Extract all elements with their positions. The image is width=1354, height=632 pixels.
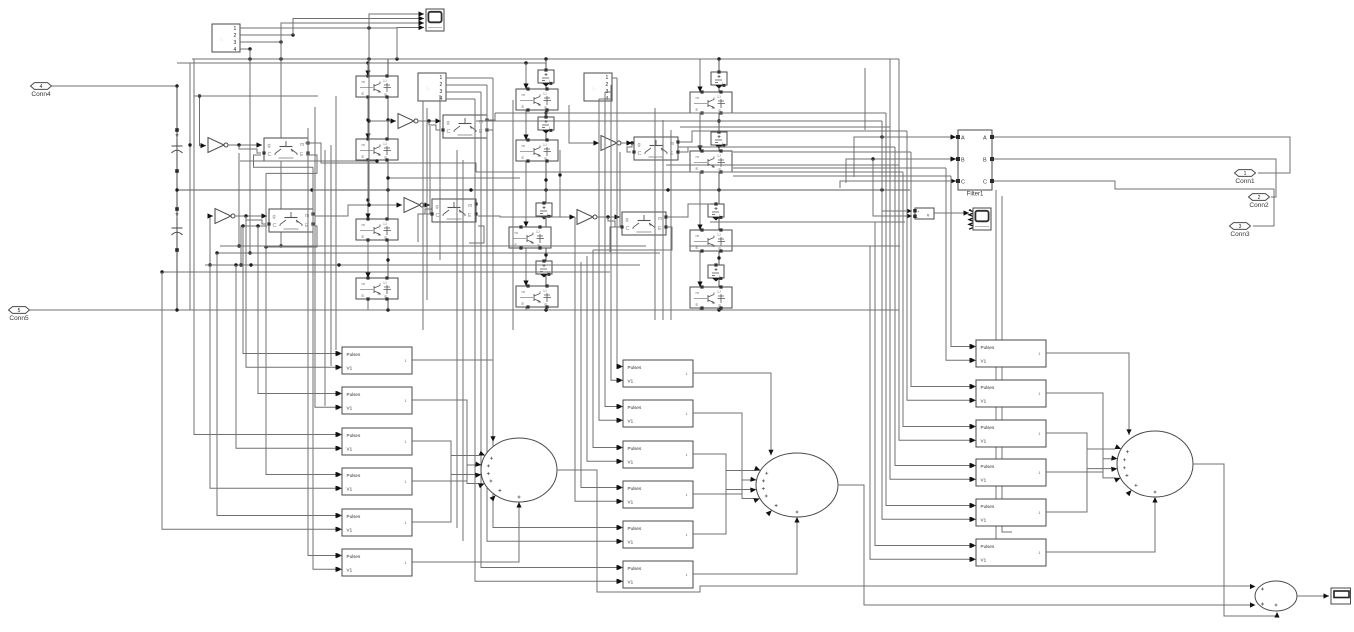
wire sum1 fan in4 [412, 465, 476, 481]
H-IGBT B1 [441, 115, 488, 138]
wire P2-3 in Pulses [593, 250, 622, 450]
svg-text:1: 1 [686, 573, 688, 577]
wire texture vertical x=427 [426, 108, 428, 300]
wire P3-1 in V1 [946, 168, 975, 363]
svg-text:V1: V1 [347, 567, 353, 572]
wire mid horizontal 12 [690, 245, 900, 247]
pulse generator P1-5 [337, 509, 413, 536]
H-IGBT A2 [267, 209, 314, 232]
wire mid horizontal 15 [205, 264, 640, 266]
port marker squares on DC leg [175, 128, 179, 132]
wire P1-2 in V1 [315, 107, 341, 410]
port Conn1 [1235, 170, 1256, 185]
wire texture vertical x=463 [462, 160, 464, 541]
svg-text:m: m [658, 216, 662, 222]
wire H-IGBT B1 m route [487, 113, 495, 120]
wire texture vertical x=671 [670, 130, 672, 320]
sum block Sum1 [475, 438, 557, 508]
wire H-IGBT B2 C feed [418, 214, 430, 242]
svg-text:E: E [696, 107, 699, 112]
wire top bus y=63 [177, 61, 546, 64]
svg-text:V1: V1 [347, 405, 353, 410]
wire H-IGBT B1 E route [489, 130, 493, 150]
svg-text:Pulses: Pulses [347, 433, 361, 438]
wire NOT A1 to IGBT g [228, 142, 262, 147]
pulse generator P3-4 [971, 459, 1047, 486]
wire vmeas to scope2 [934, 210, 969, 215]
pulse generator P1-3 [337, 428, 413, 455]
svg-text:1J: 1J [543, 92, 547, 96]
sum block Sum4 small [1250, 581, 1297, 618]
svg-text:Pulses: Pulses [347, 554, 361, 559]
wire texture vertical x=513 [512, 100, 514, 330]
svg-text:m: m [468, 203, 472, 209]
wire P2-6 in Pulses [481, 92, 622, 570]
wire P2-5 in Pulses [493, 78, 622, 530]
wire vmeas in- [873, 159, 912, 219]
svg-text:V1: V1 [981, 517, 987, 522]
wire NOT A2 to IGBT g [235, 213, 267, 218]
IGBT module leg1-4 [356, 276, 398, 300]
wire P3-5 in V1 [882, 121, 975, 522]
wire output bus y=310 from Conn5 [30, 308, 899, 311]
svg-text:Pulses: Pulses [628, 405, 642, 410]
wire texture vertical x=423 [422, 101, 424, 330]
svg-text:g: g [436, 204, 439, 210]
wire texture vertical x=620 [619, 152, 621, 227]
battery module leg2-1 [538, 68, 554, 86]
wire H-IGBT A2 C feed [239, 226, 267, 267]
wire sum2 fan in5 [693, 471, 755, 535]
svg-text:2: 2 [440, 82, 443, 88]
wire P1-2 in Pulses [258, 226, 341, 396]
wire leg2 bottom arrow [543, 303, 548, 309]
svg-text:C: C [983, 180, 987, 186]
NOT gate B1 [398, 114, 418, 129]
wire leg1 left bottom stub [367, 299, 369, 310]
wire H-IGBT B2 m chain [478, 216, 560, 217]
IGBT module leg1-1 [356, 74, 398, 98]
wire P1-6 in Pulses [308, 128, 341, 558]
pulse generator P1-6 [337, 549, 413, 576]
svg-text:E: E [362, 293, 365, 298]
wire P2-4 in V1 [575, 217, 622, 504]
svg-text:4: 4 [40, 84, 43, 90]
svg-text:Pulses: Pulses [347, 473, 361, 478]
svg-text:Conn1: Conn1 [1235, 178, 1255, 185]
svg-text:V1: V1 [981, 477, 987, 482]
svg-text:2: 2 [1258, 195, 1261, 201]
svg-text:C: C [626, 226, 630, 232]
svg-text:B: B [961, 158, 965, 164]
wire leg1 left seg4 [365, 240, 370, 278]
svg-text:A: A [983, 136, 987, 142]
wire leg1 right line [386, 59, 389, 310]
svg-text:1: 1 [1244, 171, 1247, 177]
wire mid DC bus y=190 [175, 188, 910, 191]
wire P3-2 in Pulses [911, 152, 975, 389]
wire NOT C1 to IGBT g [621, 140, 634, 145]
wire sum3 fan in4 [1046, 459, 1112, 472]
wire leg3 left seg4 [697, 251, 702, 287]
wire NOT C1 input [569, 105, 599, 146]
wire leg3 left bottom stub [699, 307, 701, 310]
battery module leg2-4 [536, 259, 552, 277]
wire leg2 left seg4 [523, 247, 528, 286]
wire NOT C2 to IGBT g [597, 214, 620, 219]
wire texture vertical x=239 [237, 153, 240, 248]
wire H-IGBT A1 C loop [254, 155, 314, 167]
svg-text:1: 1 [405, 440, 407, 444]
wire P1-4 in V1 [210, 265, 341, 491]
svg-text:1: 1 [405, 399, 407, 403]
svg-text:1J: 1J [717, 290, 721, 294]
wire cap tap arrows [176, 134, 179, 139]
wire mid horizontal 16 [162, 271, 610, 273]
wire texture vertical x=655 [654, 108, 656, 320]
wire leg2 right line [544, 59, 547, 310]
svg-text:C: C [273, 223, 277, 229]
pulse generator P2-5 [618, 521, 694, 548]
wire P1-1 in V1 [246, 216, 341, 370]
wire sum3 fan in1 [1046, 353, 1132, 435]
wire sum2 out long run [838, 485, 1250, 605]
wire leg2 left seg2 [523, 109, 528, 140]
wire D2 out1 [446, 77, 493, 79]
battery module leg2-3 [536, 201, 552, 219]
wire NOT A2 branch to C [246, 216, 266, 224]
wire NOT C1 branch to C [627, 143, 632, 152]
svg-text:V1: V1 [347, 365, 353, 370]
wire texture vertical x=1002 [1002, 196, 1012, 532]
wire sum2 bottom feed [693, 522, 797, 574]
display block Display1 [1331, 588, 1351, 604]
svg-text:s: s [426, 86, 429, 92]
svg-text:C: C [961, 180, 965, 186]
wire mid horizontal 1 [495, 112, 886, 114]
svg-text:Conn4: Conn4 [31, 91, 51, 98]
junction at 162,272 [160, 270, 163, 273]
wire D1 out3 drop [279, 42, 282, 248]
wire H-IGBT A2 E route [264, 226, 317, 249]
svg-text:1J: 1J [383, 142, 387, 146]
svg-text:g: g [638, 142, 641, 148]
svg-text:C: C [638, 151, 642, 157]
svg-text:1: 1 [686, 412, 688, 416]
svg-text:Conn5: Conn5 [9, 315, 29, 322]
svg-text:1: 1 [686, 493, 688, 497]
pulse generator P2-4 [618, 481, 694, 508]
wire P3-5 in Pulses [886, 113, 975, 508]
pulse generator P1-2 [337, 387, 413, 414]
svg-text:E: E [522, 104, 525, 109]
svg-text:1: 1 [1039, 551, 1041, 555]
NOT gate A2 [215, 209, 235, 224]
wire sum4 to display [1297, 593, 1329, 598]
wire NOT A1 input [198, 94, 206, 148]
svg-text:V1: V1 [628, 378, 634, 383]
port Conn3 [1230, 223, 1251, 238]
svg-text:Pulses: Pulses [628, 486, 642, 491]
wire P2-3 in V1 [587, 256, 622, 464]
svg-text:m: m [300, 142, 304, 148]
svg-text:Pulses: Pulses [628, 365, 642, 370]
svg-text:E: E [362, 91, 365, 96]
wire NOT B1 branch to C [429, 121, 440, 130]
svg-text:Filter1: Filter1 [967, 192, 984, 198]
wire P3-6 in V1 [870, 246, 975, 562]
wire mid horizontal 2 [476, 120, 882, 122]
svg-text:Pulses: Pulses [628, 446, 642, 451]
svg-text:V1: V1 [981, 398, 987, 403]
wire leg2 left bottom stub [525, 306, 527, 310]
wire D1 out4 drop [248, 49, 251, 255]
svg-text:g: g [268, 143, 271, 149]
svg-text:1J: 1J [717, 233, 721, 237]
wire leg1 left seg3 [365, 160, 370, 219]
svg-text:4: 4 [234, 47, 237, 53]
wire leg3 left line seg1 [697, 59, 702, 92]
wire D3 out3 [605, 91, 612, 93]
svg-text:5: 5 [18, 308, 21, 314]
wire P3-1 in Pulses [951, 176, 975, 349]
IGBT module leg1-3 [356, 217, 398, 241]
wire mid horizontal 14 [217, 252, 660, 254]
svg-text:Pulses: Pulses [981, 345, 995, 350]
svg-text:C: C [268, 152, 272, 158]
svg-text:Pulses: Pulses [347, 352, 361, 357]
scope Scope2 [973, 208, 991, 230]
wire NOT B2 branch to C [425, 205, 435, 214]
wire H-IGBT A1 E route [266, 155, 317, 173]
svg-text:1: 1 [686, 372, 688, 376]
wire D2 out3 [446, 91, 481, 93]
H-IGBT C2 [620, 212, 667, 235]
svg-text:1: 1 [1039, 511, 1041, 515]
filter block Filter1 [956, 130, 994, 198]
pulse generator P2-3 [618, 441, 694, 468]
pulse generator P3-1 [971, 340, 1047, 367]
pulse generator P3-5 [971, 499, 1047, 526]
svg-text:1: 1 [686, 533, 688, 537]
wire NOT C2 input [558, 150, 575, 220]
svg-text:C: C [447, 129, 451, 135]
port Conn4 [31, 83, 52, 98]
svg-text:1J: 1J [543, 143, 547, 147]
wire P2-1 in Pulses [617, 78, 623, 369]
svg-text:E: E [696, 166, 699, 171]
wire P1-1 in Pulses [243, 226, 341, 356]
wire texture vertical x=663 [662, 120, 664, 320]
scope Scope1 [426, 9, 444, 31]
wire mid horizontal 11 [710, 221, 905, 223]
wire top bus y=59 [192, 57, 899, 60]
wire P1-3 in Pulses [194, 272, 341, 437]
svg-text:V1: V1 [628, 539, 634, 544]
wire mid horizontal 7 [733, 130, 907, 132]
NOT gate B2 [404, 198, 424, 213]
svg-text:Pulses: Pulses [981, 385, 995, 390]
wire texture vertical x=325 [324, 150, 326, 406]
IGBT module leg3-2 [690, 149, 732, 173]
wire NOT B1 to IGBT g [418, 118, 441, 123]
wire NOT B1 input stub [369, 118, 396, 123]
IGBT module leg3-4 [690, 285, 732, 309]
wire leg1 left seg2 [365, 97, 370, 139]
port Conn2 [1249, 194, 1270, 209]
svg-text:Conn2: Conn2 [1249, 202, 1269, 209]
capacitor C1 [172, 146, 183, 153]
wire sum2 fan in2 [693, 413, 754, 499]
svg-text:3: 3 [440, 89, 443, 95]
wire sum2 fan in3 [693, 454, 750, 490]
wire P2-6 in V1 [475, 99, 622, 584]
svg-text:1: 1 [405, 359, 407, 363]
H-IGBT C1 [632, 137, 679, 160]
wire sum1 bottom feed [412, 507, 519, 562]
H-IGBT A1 [262, 138, 309, 161]
capacitor C2 [172, 228, 183, 235]
svg-text:g: g [626, 217, 629, 223]
svg-text:Pulses: Pulses [981, 544, 995, 549]
wire sum3 bottom feed [1046, 502, 1155, 552]
svg-text:V1: V1 [628, 499, 634, 504]
voltage measurement VM1 [913, 208, 934, 219]
wire D1 out1 [240, 26, 397, 29]
pulse generator P3-6 [971, 539, 1047, 566]
svg-text:1: 1 [606, 75, 609, 81]
pulse generator P3-2 [971, 380, 1047, 407]
wire H-IGBT C1 m route [680, 131, 733, 142]
wire filter B out to Conn2 [994, 159, 1276, 197]
wire NOT A2 input [208, 213, 214, 266]
wire texture vertical x=336 [335, 96, 337, 350]
wire NOT C2 branch to C [608, 217, 619, 227]
svg-text:V1: V1 [347, 446, 353, 451]
wire sum1 fan in5 [412, 456, 479, 523]
wire mid horizontal 6 [476, 171, 903, 173]
pulse generator P2-6 [618, 561, 694, 588]
wire left pair vertical x=194 [193, 59, 195, 272]
junction A2 C line branch [256, 224, 259, 227]
wire D1 out2 [240, 33, 295, 36]
wire NOT A1 branch to C [239, 145, 261, 153]
sum block Sum3 [1111, 431, 1193, 503]
wire sum3 fan in2 [1046, 393, 1115, 478]
wire H-IGBT A2 m chain [315, 203, 371, 216]
battery module leg3-3 [708, 202, 724, 220]
wire P2-5 in V1 [487, 85, 622, 544]
svg-text:V1: V1 [628, 459, 634, 464]
wire sum3 fan in5 [1046, 449, 1115, 512]
svg-text:1J: 1J [717, 154, 721, 158]
wire leg3 bottom arrow [716, 303, 721, 309]
svg-text:1: 1 [405, 521, 407, 525]
wire texture vertical x=331 [330, 145, 332, 366]
svg-text:1: 1 [440, 75, 443, 81]
battery module leg2-2 [538, 115, 554, 133]
wire H-IGBT B2 E route [469, 226, 484, 243]
IGBT module leg3-1 [690, 90, 732, 114]
wire H-IGBT C2 m chain [668, 204, 710, 217]
svg-text:1: 1 [234, 26, 237, 32]
battery module leg3-1 [711, 70, 727, 88]
wire P1-5 in Pulses [217, 253, 341, 518]
wire P1-5 in V1 [162, 272, 341, 532]
wire sum1 fan in2 [412, 400, 479, 484]
svg-text:1J: 1J [536, 230, 540, 234]
svg-text:Pulses: Pulses [981, 504, 995, 509]
wire P1-3 in V1 [236, 265, 341, 451]
svg-text:Pulses: Pulses [628, 526, 642, 531]
wire filter C out to Conn3 [994, 181, 1274, 226]
svg-text:1J: 1J [383, 79, 387, 83]
wire H-IGBT C2 C feed [610, 227, 620, 252]
junction A2 C line branch2 [241, 224, 244, 227]
svg-text:E: E [522, 301, 525, 306]
wire horizontal y=178 right of leg1 [386, 176, 520, 179]
wire horizontal y=96 [194, 95, 318, 97]
IGBT module leg2-3 [509, 225, 551, 249]
wire P1-4 in Pulses [266, 173, 341, 477]
wire P3-6 in Pulses [875, 222, 975, 548]
wire P2-2 in V1 [599, 99, 622, 423]
wire NOT B2 to IGBT g [424, 202, 437, 207]
svg-text:V1: V1 [347, 486, 353, 491]
svg-text:Pulses: Pulses [347, 514, 361, 519]
wire leg2 left seg3 [523, 160, 528, 227]
wire right vertical x=899 [898, 59, 900, 310]
wire H-IGBT C1 E route [680, 147, 733, 152]
wire filter feed B [846, 156, 956, 183]
svg-text:C: C [436, 213, 440, 219]
wire D3 out4 [599, 98, 612, 100]
svg-text:Conn3: Conn3 [1230, 231, 1250, 238]
junction at 236,265 [234, 263, 237, 266]
svg-text:Pulses: Pulses [981, 425, 995, 430]
H-IGBT B2 [430, 199, 477, 222]
wire leg3 left seg3 [697, 172, 702, 230]
svg-text:V1: V1 [981, 358, 987, 363]
svg-text:V1: V1 [981, 438, 987, 443]
wire vmeas in+ [882, 137, 912, 214]
pulse generator P2-2 [618, 400, 694, 427]
IGBT module leg2-2 [516, 138, 558, 162]
svg-text:g: g [447, 120, 450, 126]
IGBT module leg3-3 [690, 228, 732, 252]
svg-text:1: 1 [1039, 392, 1041, 396]
NOT gate A1 [208, 138, 228, 153]
wire P2-1 in V1 [611, 85, 622, 383]
svg-text:1: 1 [686, 453, 688, 457]
demux D3 [584, 73, 612, 102]
pulse generator P2-1 [618, 360, 694, 387]
wire sum1 out long run [557, 470, 1250, 592]
junction at 251,265 [249, 263, 252, 266]
svg-text:E: E [522, 155, 525, 160]
svg-text:Pulses: Pulses [981, 464, 995, 469]
wire DC bus vertical x=177 [176, 86, 178, 310]
wire leg3 right line [717, 59, 720, 310]
wire sum2 fan in1 [693, 373, 774, 455]
wire P3-4 in Pulses [895, 147, 975, 468]
svg-text:1J: 1J [383, 222, 387, 226]
svg-text:1: 1 [1039, 471, 1041, 475]
battery module leg3-4 [708, 263, 724, 281]
wire D2 out2 [446, 84, 487, 86]
scope2 squiggle [969, 210, 975, 229]
svg-text:V1: V1 [628, 579, 634, 584]
